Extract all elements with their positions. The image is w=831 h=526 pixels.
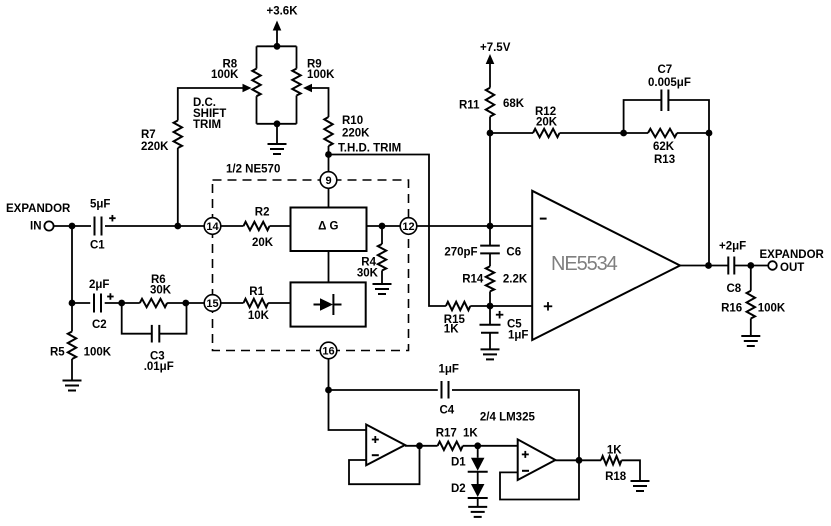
svg-text:EXPANDOR: EXPANDOR [6,203,71,215]
svg-text:C7: C7 [658,64,673,76]
svg-text:+3.6K: +3.6K [267,6,299,18]
svg-text:1μF: 1μF [439,364,459,376]
svg-text:C2: C2 [92,319,107,331]
svg-text:D1: D1 [451,457,466,469]
svg-text:D2: D2 [451,483,466,495]
svg-text:.01μF: .01μF [144,361,174,373]
svg-text:30K: 30K [357,268,379,280]
svg-text:C8: C8 [727,283,742,295]
svg-text:R5: R5 [50,347,65,359]
svg-text:0.005μF: 0.005μF [648,77,691,89]
svg-text:1K: 1K [444,324,459,336]
svg-text:TRIM: TRIM [193,119,221,131]
svg-text:C4: C4 [440,405,455,417]
svg-text:R14: R14 [462,274,484,286]
svg-text:100K: 100K [211,69,239,81]
svg-text:C6: C6 [506,246,521,258]
svg-text:EXPANDOR: EXPANDOR [760,249,825,261]
svg-text:100K: 100K [307,69,335,81]
svg-text:1μF: 1μF [508,330,528,342]
svg-text:Δ G: Δ G [318,221,338,233]
svg-text:C1: C1 [90,240,105,252]
svg-text:2/4 LM325: 2/4 LM325 [480,412,536,424]
svg-text:R1: R1 [249,286,264,298]
svg-text:NE5534: NE5534 [551,253,618,275]
svg-text:100K: 100K [758,303,786,315]
svg-text:20K: 20K [252,237,274,249]
svg-text:1K: 1K [607,445,622,457]
svg-text:2.2K: 2.2K [503,274,528,286]
svg-text:R2: R2 [255,207,270,219]
svg-text:R18: R18 [605,471,627,483]
svg-text:+7.5V: +7.5V [480,42,511,54]
svg-text:30K: 30K [150,285,172,297]
svg-text:R17: R17 [436,428,457,440]
svg-text:OUT: OUT [780,262,804,274]
svg-text:10K: 10K [248,310,270,322]
svg-text:R7: R7 [141,129,156,141]
svg-text:220K: 220K [342,128,370,140]
svg-text:T.H.D. TRIM: T.H.D. TRIM [338,143,401,155]
svg-text:100K: 100K [84,347,112,359]
svg-text:R16: R16 [721,303,742,315]
svg-text:270pF: 270pF [444,246,477,258]
svg-text:1/2 NE570: 1/2 NE570 [226,164,280,176]
svg-text:220K: 220K [141,141,169,153]
svg-text:20K: 20K [536,117,558,129]
svg-text:68K: 68K [503,98,525,110]
svg-text:5μF: 5μF [90,199,110,211]
svg-text:2μF: 2μF [89,279,109,291]
svg-text:9: 9 [325,175,331,187]
svg-text:IN: IN [30,221,42,233]
svg-text:R13: R13 [654,154,675,166]
svg-text:1K: 1K [463,428,478,440]
svg-text:62K: 62K [653,141,675,153]
svg-text:R10: R10 [342,115,363,127]
svg-text:14: 14 [206,221,219,233]
svg-text:16: 16 [322,346,334,358]
svg-text:12: 12 [402,221,414,233]
svg-text:R11: R11 [459,100,480,112]
svg-text:15: 15 [206,298,218,310]
svg-text:+2μF: +2μF [719,241,746,253]
